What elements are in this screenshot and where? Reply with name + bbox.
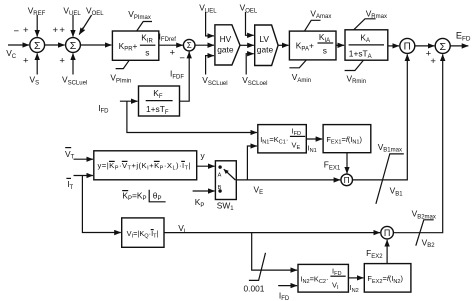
wire VOEL into LV gate xyxy=(246,12,254,35)
wire VS up xyxy=(36,53,38,74)
wire KP into SW1 xyxy=(193,190,215,192)
wire IFD into IN2 xyxy=(278,285,297,287)
block VI=|KQ*IT| xyxy=(122,218,164,247)
wire y to SW1 xyxy=(197,165,215,167)
svg-text:+: + xyxy=(80,25,86,36)
wire VSCLuel into HV gate xyxy=(206,56,214,75)
summing junction S4 xyxy=(435,38,450,53)
wire VSCLuel up xyxy=(72,53,74,74)
block FEX1=f(IN1) xyxy=(323,125,371,153)
wire VT into y block xyxy=(74,158,93,160)
wire VE from SW1 to P2 xyxy=(236,179,340,181)
svg-text:+: + xyxy=(430,56,436,67)
wire KA to P1 xyxy=(388,45,399,47)
block FEX2=f(IN2) xyxy=(364,264,411,293)
gate LV xyxy=(255,25,278,66)
svg-text:Σ: Σ xyxy=(70,40,77,52)
multiplier P1 xyxy=(400,38,415,53)
svg-text:+: + xyxy=(23,25,29,36)
wire S1 to S2 xyxy=(45,44,65,46)
wire IT branch down to VI block xyxy=(82,176,120,233)
svg-text:−: − xyxy=(179,53,185,64)
limit VB1max slash xyxy=(376,154,404,204)
wire S3 to HV gate xyxy=(195,44,214,46)
wire HV to LV gate xyxy=(240,44,254,46)
svg-text:s: s xyxy=(323,45,327,55)
wire VB2 from P3 up to S4 xyxy=(393,54,442,232)
wire S4 to EFD output xyxy=(450,45,468,47)
summing junction S1 xyxy=(30,38,45,53)
svg-text:0.001: 0.001 xyxy=(244,283,265,293)
svg-text:Π: Π xyxy=(384,228,391,238)
wire IFD branch down to IN1 block xyxy=(127,101,257,132)
wire S2 to PI block xyxy=(80,44,111,46)
switch SW1 xyxy=(215,161,236,200)
block KPA+KIA/s xyxy=(289,31,336,60)
svg-text:gate: gate xyxy=(257,45,274,55)
wire VI branch down through limiter to IN2 xyxy=(252,233,297,271)
svg-text:Π: Π xyxy=(404,42,411,53)
svg-text:s: s xyxy=(145,48,149,58)
wire IT into y block xyxy=(74,175,93,177)
wire VB1 from P2 up to P1 xyxy=(353,54,408,179)
limit VB2max slash xyxy=(416,220,434,246)
label VT with overbar xyxy=(65,148,75,161)
wire VSCLoel into LV gate xyxy=(246,54,254,75)
wire P1 to S4 xyxy=(415,45,435,47)
block IN2=KC2*IFD/VI xyxy=(298,264,348,292)
wire VI to P3 xyxy=(164,232,380,234)
multiplier P2 xyxy=(341,174,353,186)
wire KPA to KA xyxy=(336,44,344,46)
summing junction S3 xyxy=(183,39,195,51)
wire IFD into KF block xyxy=(120,100,138,102)
svg-text:+: + xyxy=(53,25,59,36)
wire VUEL down xyxy=(72,15,74,37)
block PI regulator KPR+KIR/s xyxy=(112,31,158,60)
svg-text:HV: HV xyxy=(220,34,232,44)
wire IN2 to FEX2 xyxy=(348,277,363,279)
wire FEX2 up to P3 xyxy=(386,240,388,264)
wire VREF down xyxy=(36,15,38,37)
svg-text:+: + xyxy=(170,48,176,59)
limit 0.001 slash xyxy=(249,253,266,281)
block KF/(1+sTF) xyxy=(139,86,180,116)
block y equation xyxy=(94,151,197,180)
limit VAmax symbol xyxy=(305,20,321,31)
svg-text:LV: LV xyxy=(259,34,269,44)
label KP equals KP angle thetaP xyxy=(122,190,165,202)
limit VRmax symbol xyxy=(354,19,376,30)
gate HV xyxy=(215,25,240,65)
svg-text:+: + xyxy=(23,56,29,67)
svg-text:A: A xyxy=(218,173,222,179)
svg-text:Σ: Σ xyxy=(187,41,192,50)
limit VPImin symbol xyxy=(116,60,130,68)
svg-text:+: + xyxy=(59,25,65,36)
wire LV to KPA block xyxy=(278,44,288,46)
wire VUEL into HV gate xyxy=(206,12,214,36)
svg-text:B: B xyxy=(218,185,222,191)
wire KF feedback to S3 xyxy=(180,52,190,101)
svg-text:+: + xyxy=(59,56,65,67)
wire FEX1 down to P2 xyxy=(346,153,348,174)
summing junction S2 xyxy=(66,38,81,53)
limit VRmin symbol xyxy=(345,60,364,70)
wire VE branch up into IN1 xyxy=(247,146,257,180)
svg-text:gate: gate xyxy=(217,45,234,55)
node VC input wire xyxy=(8,44,29,46)
limit VPImax symbol xyxy=(137,22,152,32)
block KA/(1+sTA) xyxy=(345,30,388,60)
multiplier P3 xyxy=(381,226,394,239)
limit VAmin symbol xyxy=(289,60,306,68)
svg-text:Σ: Σ xyxy=(439,41,446,53)
wire PI to S3 with label IFDref xyxy=(159,44,183,46)
label IT with overbar xyxy=(66,178,73,190)
svg-text:Σ: Σ xyxy=(34,40,41,52)
wire VOEL diagonal xyxy=(79,15,91,35)
svg-text:−: − xyxy=(14,26,20,37)
svg-text:Π: Π xyxy=(344,175,350,185)
block IN1=KC1*IFD/VE xyxy=(258,125,307,153)
wire IN1 to FEX1 xyxy=(306,138,322,140)
